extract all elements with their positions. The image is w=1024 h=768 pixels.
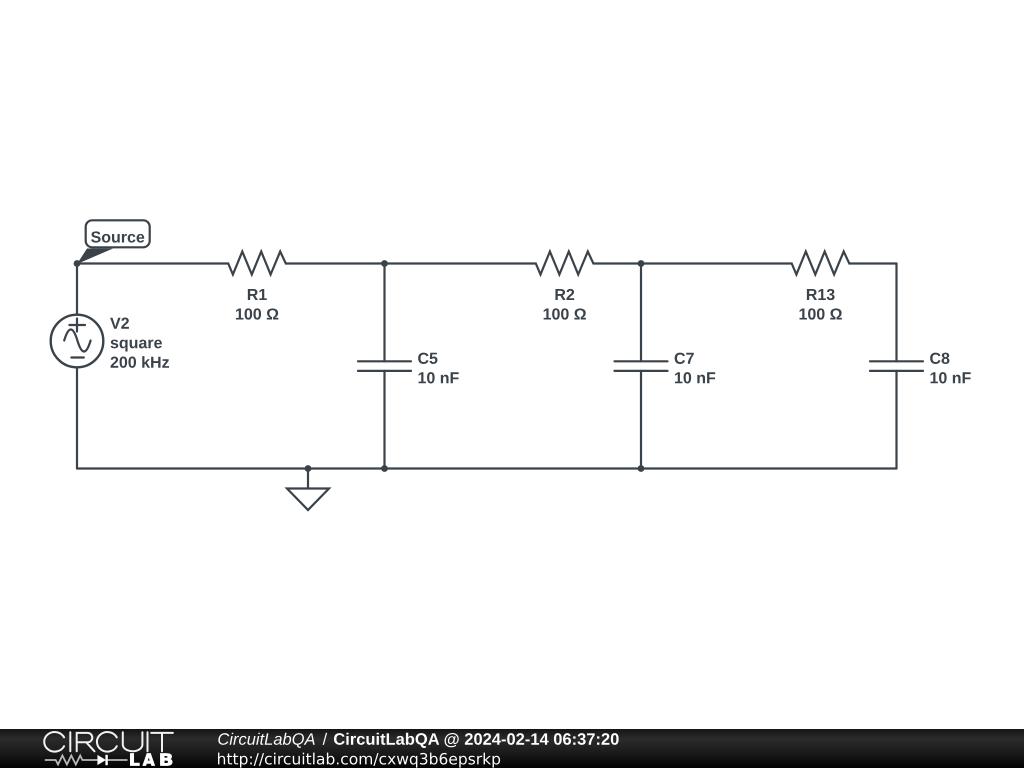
label C5 value (418, 353, 459, 384)
voltage source V2 plus sign (69, 319, 85, 332)
node dot junction R2/C7 (638, 260, 645, 267)
capacitor C8 plates (870, 361, 923, 371)
label R13 value (800, 289, 842, 320)
footer bar (0, 729, 1024, 768)
node dot source (74, 260, 81, 267)
node dot ground junction (305, 465, 312, 472)
node Source label bubble (77, 220, 150, 264)
voltage source V2 minus sign (71, 356, 83, 358)
label C7 value (675, 353, 716, 384)
wire C7 branch (640, 264, 642, 469)
label Source text (91, 231, 144, 242)
label R2 value (544, 289, 586, 320)
label V2 value (110, 318, 169, 368)
logo LAB wordmark (130, 753, 172, 765)
logo resistor-diode glyph (45, 755, 128, 765)
wire left branch (V2) (76, 264, 78, 469)
ground symbol (287, 469, 329, 511)
footer url text (218, 753, 500, 768)
node dot bottom C5 (381, 465, 388, 472)
label C8 value (930, 353, 971, 384)
wire C5 branch (383, 264, 385, 469)
footer title text (218, 733, 618, 748)
wire top net with resistor zigzags (77, 252, 897, 275)
voltage source V2 sine wave (64, 330, 90, 352)
voltage source V2 circle (51, 315, 104, 368)
logo CIRCUIT wordmark (44, 732, 173, 752)
capacitor C7 plates (615, 361, 668, 371)
capacitor C5 plates (358, 361, 411, 371)
wire right branch (C8) (895, 264, 897, 469)
label R1 value (236, 289, 278, 320)
node dot bottom C7 (638, 465, 645, 472)
wire bottom net (77, 467, 897, 469)
node dot junction R1/C5 (381, 260, 388, 267)
